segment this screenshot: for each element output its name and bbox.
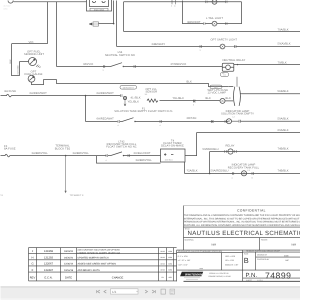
- svg-text:3A/BRN/YEL: 3A/BRN/YEL: [73, 152, 90, 155]
- wire vertical x=209.5 relay drop: [209, 152, 211, 174]
- wire neutral switch row y=66: [57, 66, 111, 68]
- lamp OPT SAFETY LIGHT: [220, 44, 236, 49]
- svg-text:10/16/18: 10/16/18: [64, 269, 74, 272]
- svg-text:G: G: [31, 263, 33, 266]
- junction TB2: [65, 155, 67, 157]
- svg-text:.00 ± .015: .00 ± .015: [225, 259, 235, 262]
- wire vertical x=113.5: [113, 1, 115, 24]
- wire y=173 recovery lamp row: [185, 173, 301, 175]
- svg-text:PRAIRIE GROVE, IL 60140: PRAIRIE GROVE, IL 60140: [209, 275, 231, 278]
- wire timer out right to 60A/BLK bus: [185, 133, 197, 156]
- svg-text:CHG: CHG: [4, 8, 9, 11]
- svg-text:DATE: DATE: [65, 276, 72, 279]
- svg-text:04/26/20: 04/26/20: [64, 256, 74, 259]
- lamp wet lps: [220, 98, 225, 103]
- wire top row y=1.5 to x=241: [124, 1, 242, 3]
- svg-text:BLOCK TB2: BLOCK TB2: [55, 147, 71, 150]
- svg-text:DELAY-ON-MAKE: DELAY-ON-MAKE: [161, 145, 184, 148]
- connector pins 2/4 on top row: [172, 0, 175, 4]
- svg-text:50A/RED/BLU: 50A/RED/BLU: [211, 170, 229, 173]
- wire stepped ground run from gauge to connector: [32, 80, 229, 87]
- wire safety light row y=46: [117, 46, 220, 48]
- lamp L2 solution tank empty: [227, 119, 241, 124]
- svg-text:50/RED/BLU: 50/RED/BLU: [203, 148, 219, 151]
- svg-text:51B/BLK: 51B/BLK: [278, 90, 289, 93]
- svg-text:SOLUTION TANK EMPTY: SOLUTION TANK EMPTY: [221, 113, 254, 116]
- svg-text:?2A/BLK: ?2A/BLK: [187, 170, 198, 173]
- svg-text:YEL/BLK: YEL/BLK: [128, 101, 140, 104]
- connector on safety row: [200, 45, 202, 48]
- svg-text:BLK: BLK: [206, 97, 211, 100]
- svg-text:50(A)/BLK: 50(A)/BLK: [278, 42, 291, 45]
- svg-text:ADDED SIDE GREEN MIST OPTION: ADDED SIDE GREEN MIST OPTION: [78, 263, 117, 266]
- svg-text:INTERNATIONAL, INC. THIS DRAWI: INTERNATIONAL, INC. THIS DRAWING IS NOT …: [184, 217, 300, 220]
- svg-text:OPT SAFETY LIGHT: OPT SAFETY LIGHT: [211, 39, 238, 42]
- label box BLK (right): [210, 85, 222, 89]
- wire y=131.5 60A/BLK: [197, 132, 301, 134]
- svg-text:UPDATED MURPHY SWITCH: UPDATED MURPHY SWITCH: [78, 256, 109, 259]
- svg-text:BLK: BLK: [187, 81, 192, 84]
- svg-text:SHEET: SHEET: [246, 279, 253, 282]
- svg-text:10M BLU: 10M BLU: [165, 159, 174, 162]
- svg-text:NAUTILUS ELECTRICAL SCHEMATIC: NAUTILUS ELECTRICAL SCHEMATIC: [188, 230, 301, 237]
- connector X x=211.5: [211, 120, 214, 123]
- svg-text:CHANGE T3 FUSE TO 15 AMPS, DEL: CHANGE T3 FUSE TO 15 AMPS, DELETE 10A: [78, 251, 121, 254]
- svg-text:131969: 131969: [44, 250, 53, 253]
- lamp L tail light: [204, 21, 242, 26]
- viewer toolbar: [1, 287, 301, 300]
- wire big loop left edge x=123.5: [123, 2, 125, 32]
- wire vertical x=116.5 to safety light row: [116, 1, 118, 47]
- toolbar pager controls: [97, 289, 175, 294]
- wire vertical x=47: [47, 2, 49, 44]
- svg-text:1/5: 1/5: [145, 93, 148, 96]
- svg-text:N/A: N/A: [292, 244, 297, 247]
- label box 5B/RD/WHT: [120, 86, 137, 90]
- svg-text:WHITEMAN: WHITEMAN: [185, 272, 203, 276]
- wire y=43.5 VIO: [12, 43, 48, 45]
- svg-text:2T/RED/VIO: 2T/RED/VIO: [171, 63, 187, 66]
- svg-text:SENDING UNIT: SENDING UNIT: [24, 53, 44, 56]
- svg-text:NEUTRAL RELAY: NEUTRAL RELAY: [223, 59, 246, 62]
- svg-text:03/03/20: 03/03/20: [64, 250, 74, 253]
- svg-text:6A/RED/WHT: 6A/RED/WHT: [30, 92, 48, 95]
- svg-text:SOLUTION TANK EMPTY FLOAT: SOLUTION TANK EMPTY FLOAT SWITCH #1: [114, 110, 173, 113]
- logo whiteman: [180, 269, 203, 279]
- svg-text:MATERIAL: MATERIAL: [185, 239, 194, 242]
- svg-text:P.N.: P.N.: [246, 272, 258, 279]
- wire NC branch y=163: [97, 156, 161, 164]
- svg-text:SENSOR: SENSOR: [146, 91, 158, 94]
- svg-text:THE DRAWINGS AND ALL INFORMATI: THE DRAWINGS AND ALL INFORMATION CONTAIN…: [184, 214, 300, 217]
- svg-text:8A FUSE: 8A FUSE: [4, 148, 16, 151]
- wire vertical x=65.1 to sheet 3: [65, 156, 67, 194]
- connector pins x=252: [252, 172, 254, 175]
- svg-text:131293: 131293: [44, 256, 53, 259]
- svg-text:ADD BRAKE LIGHTS: ADD BRAKE LIGHTS: [78, 269, 101, 272]
- svg-text:12-VDC LAMP: 12-VDC LAMP: [208, 92, 227, 95]
- svg-text:2: 2: [193, 104, 194, 107]
- svg-text:74899: 74899: [265, 270, 291, 280]
- relay K1 neutral relay coil: [222, 63, 234, 71]
- svg-text:.000 ± .005: .000 ± .005: [225, 255, 236, 258]
- connector pins recover row: [106, 154, 108, 157]
- svg-text:50A/BLK: 50A/BLK: [278, 117, 289, 120]
- svg-text:6A/RED/WHT: 6A/RED/WHT: [97, 118, 115, 121]
- switch LT42 float blade: [108, 152, 161, 156]
- switch LS4 blade: [111, 63, 141, 68]
- faint print remnants top-left: [4, 5, 12, 11]
- connector U1 engine connector box: [87, 0, 112, 11]
- svg-text:6A/RED/WHT: 6A/RED/WHT: [97, 92, 115, 95]
- wire vertical x=85 to float switch row: [85, 96, 87, 122]
- svg-text:ENG CONN: ENG CONN: [94, 8, 105, 11]
- wire vertical x=19: [19, 62, 21, 76]
- wire level sensor row y=100.5: [160, 100, 220, 102]
- tolerance values: [178, 255, 239, 266]
- svg-text:YEL/BLK: YEL/BLK: [173, 97, 185, 100]
- wire y=93.6 51B/BLK: [241, 93, 300, 95]
- wire vertical x=182: [183, 1, 204, 24]
- svg-text:74B/BLK: 74B/BLK: [278, 148, 289, 151]
- svg-text:RELAY: RELAY: [226, 145, 235, 148]
- svg-text:RECOVERY TANK FULL: RECOVERY TANK FULL: [228, 167, 260, 170]
- svg-text:3A/BRN/YEL: 3A/BRN/YEL: [32, 152, 49, 155]
- ground symbol at sender: [36, 64, 41, 69]
- svg-text:REMOVE BURRS AND BREAK SHARP: REMOVE BURRS AND BREAK SHARP: [246, 250, 280, 253]
- svg-text:FURTHER, ALL INFORMATION CONTA: FURTHER, ALL INFORMATION CONTAINED HEREI…: [184, 224, 300, 227]
- sender B1 fuel sending unit: [20, 58, 37, 66]
- svg-text:CONFIDENTIAL: CONFIDENTIAL: [237, 208, 266, 212]
- svg-text:FINISH: FINISH: [261, 239, 268, 242]
- connector pins float row: [118, 120, 120, 123]
- svg-text:<10° ± 1/2°: <10° ± 1/2°: [178, 263, 188, 266]
- wire float switch row y=121: [86, 121, 111, 123]
- svg-text:8A FUSE: 8A FUSE: [5, 90, 17, 93]
- svg-text:3A/BRN/YEL: 3A/BRN/YEL: [136, 159, 153, 162]
- confidential paragraph: [184, 214, 306, 227]
- svg-text:NEUTRAL SWITCH NO: NEUTRAL SWITCH NO: [105, 54, 135, 57]
- connector bracket J2: [225, 87, 241, 106]
- wire relay row y=152.5: [210, 151, 301, 153]
- wire vertical x=56: [56, 2, 58, 67]
- svg-text:±1°-12° ± 1/4°: ±1°-12° ± 1/4°: [178, 259, 191, 262]
- connector pins x=225: [225, 120, 227, 123]
- revision table: [29, 248, 177, 281]
- svg-text:70A/BLK: 70A/BLK: [278, 29, 289, 32]
- relay K2 coil: [225, 149, 237, 154]
- switch F1 solution tank empty float: [111, 118, 158, 123]
- engine pulley circle top-left: [8, 1, 13, 4]
- wire solution row to lamp: [158, 121, 229, 123]
- wire relay output y=64.5 to right: [234, 64, 301, 65]
- svg-text:PERMISSION OF WHITEMAN INTERNA: PERMISSION OF WHITEMAN INTERNATIONAL, IN…: [184, 221, 300, 224]
- svg-text:E369: E369: [284, 254, 288, 257]
- svg-text:RD/VIO: RD/VIO: [84, 63, 94, 66]
- lamp L3 recovery tank full: [241, 171, 246, 176]
- svg-text:FLOAT SWITCH NO NC: FLOAT SWITCH NO NC: [106, 146, 137, 149]
- wire vertical x=241: [241, 2, 243, 24]
- connector pins after switch: [134, 65, 136, 68]
- svg-text:BRN/WHT: BRN/WHT: [188, 21, 201, 24]
- svg-text:FUEL GAUGE: FUEL GAUGE: [24, 73, 42, 76]
- svg-text:2U/BLU/WHT: 2U/BLU/WHT: [134, 152, 151, 155]
- wire to neutral relay: [141, 66, 223, 68]
- svg-text:74B/BLK: 74B/BLK: [278, 170, 289, 173]
- lamp R tail light: [206, 0, 228, 4]
- connector key switch terminal: [121, 94, 127, 99]
- svg-text:E.C.N.: E.C.N.: [45, 276, 53, 279]
- connector pins x=232.5: [232, 172, 234, 175]
- connector pins after LT42: [128, 154, 130, 157]
- wire y=120.7 to right 50A/BLK: [241, 120, 301, 122]
- resistor level sensor: [147, 99, 158, 102]
- svg-text:1 OF 8: 1 OF 8: [257, 279, 263, 282]
- svg-text:1/1: 1/1: [112, 290, 117, 294]
- svg-text:DRAWN BY: DRAWN BY: [257, 253, 268, 256]
- svg-text:CHECKED BY: CHECKED BY: [257, 258, 270, 261]
- svg-text:0-1° ± 1/16: 0-1° ± 1/16: [178, 255, 189, 258]
- wire terminal block row y=155.5: [13, 155, 107, 157]
- timer T4 box: [161, 149, 186, 162]
- svg-text:3: 3: [103, 69, 104, 72]
- svg-text:ALT 12V: ALT 12V: [4, 5, 12, 8]
- svg-text:REV: REV: [30, 276, 36, 279]
- svg-text:BLK: BLK: [226, 97, 231, 100]
- svg-text:ANGLES ± 30°: ANGLES ± 30°: [225, 263, 239, 266]
- svg-text:2R/TAN: 2R/TAN: [187, 117, 197, 120]
- svg-text:3: 3: [200, 49, 201, 52]
- svg-text:YERKS U.S. ROUTE 30: YERKS U.S. ROUTE 30: [209, 272, 228, 275]
- meter M1 fuel gauge: [28, 75, 35, 82]
- svg-text:N/A: N/A: [212, 244, 217, 247]
- svg-text:132067: 132067: [44, 263, 53, 266]
- wire timer bottom to y=173: [184, 162, 186, 174]
- title block: [177, 206, 301, 282]
- svg-text:132447: 132447: [44, 269, 53, 272]
- wire 6A/RED/WHT row y=95.5: [14, 95, 121, 97]
- junction x=85: [85, 95, 87, 97]
- arrow down YEL/BLK: [124, 100, 126, 106]
- svg-text:24B/GRAY: 24B/GRAY: [152, 43, 166, 46]
- connector pins x=160: [160, 120, 162, 123]
- label box A1 above bracket: [221, 73, 238, 87]
- svg-text:B: B: [244, 256, 249, 265]
- connector X on sensor row: [193, 100, 196, 103]
- svg-text:41 /BLK: 41 /BLK: [131, 96, 141, 99]
- wire top bus y=1.3: [14, 1, 87, 3]
- svg-text:TO SHEET 3: TO SHEET 3: [70, 194, 85, 197]
- svg-text:L TAIL LIGHT: L TAIL LIGHT: [206, 17, 223, 20]
- svg-text:70/BLK: 70/BLK: [278, 61, 287, 64]
- svg-text:12/06/19: 12/06/19: [64, 263, 74, 266]
- off-sheet arrow to key switch: [89, 22, 99, 26]
- junction y=173 x=209.5: [209, 173, 211, 175]
- svg-text:ADD CONSTANT SOLUTION FLOW OPT: ADD CONSTANT SOLUTION FLOW OPTIONS: [78, 249, 121, 252]
- wire y=45.8 50A/BLK to right edge: [236, 46, 301, 48]
- wire long bus y=31 70A/BLK: [124, 31, 301, 33]
- svg-text:CHANGE: CHANGE: [112, 276, 124, 279]
- svg-text:5B/RD/WHT: 5B/RD/WHT: [123, 86, 135, 89]
- svg-text:TOLERANCES (UNLESS OTHERWISE S: TOLERANCES (UNLESS OTHERWISE SPECIFIED): [178, 250, 223, 253]
- connector pins on neutral row: [103, 65, 105, 68]
- svg-text:60A/BLK: 60A/BLK: [278, 129, 289, 132]
- wire vertical x=11.5: [12, 44, 20, 76]
- wire arrow box to x=113.5: [99, 23, 115, 25]
- logo address: [209, 272, 231, 278]
- svg-text:BLK: BLK: [9, 59, 12, 64]
- svg-text:H: H: [32, 256, 34, 259]
